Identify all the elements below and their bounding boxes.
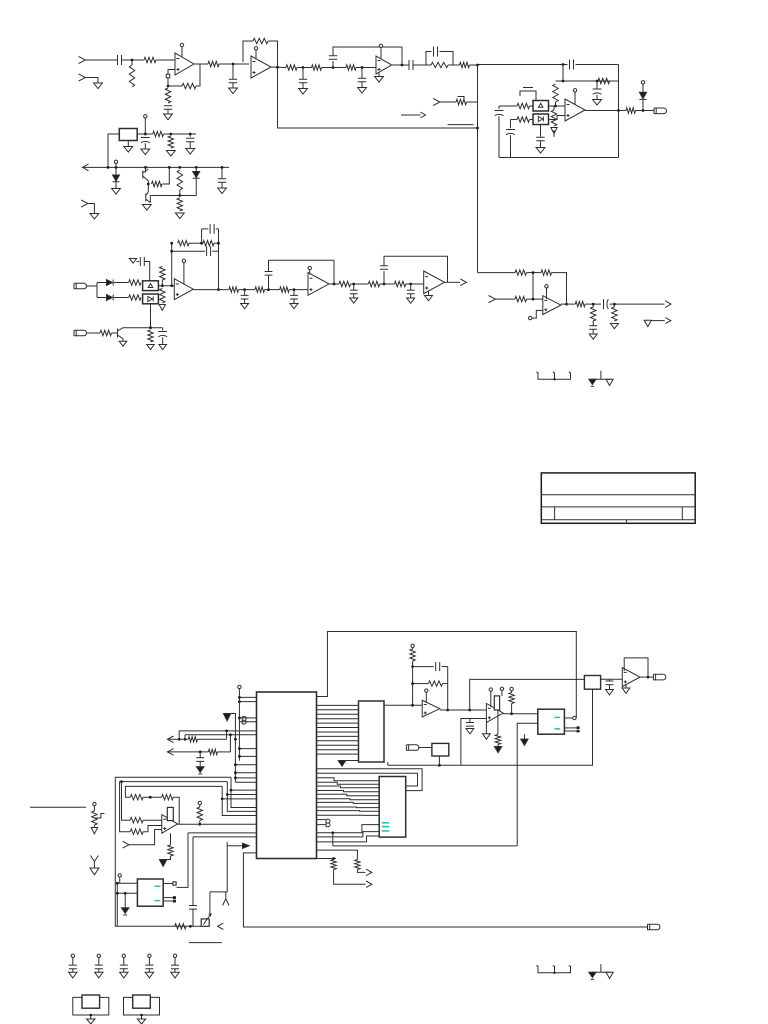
resistor R25 (160, 267, 165, 281)
wire R37 to R38 (527, 272, 542, 274)
junction R29 R30 (200, 242, 203, 245)
resistor R20 (152, 181, 163, 186)
ground G35 filled (196, 767, 204, 773)
wire U7-U8 pin 4 (317, 718, 359, 720)
cyan mark U17 a (155, 885, 161, 887)
wire C26 stub (383, 271, 385, 284)
wire cap row gnd 3 (123, 969, 125, 973)
ground G18 small (129, 259, 136, 264)
net label underline (448, 124, 474, 126)
op-amp U12 (622, 668, 640, 687)
wire U1A output (194, 63, 200, 65)
wire C1 to R1 (122, 59, 145, 61)
wire c2 corner (184, 735, 186, 740)
ground G30 (606, 379, 613, 385)
wire maze L3 (125, 786, 222, 797)
junction rail D2 (115, 166, 118, 169)
optocoupler A2 box (533, 114, 549, 125)
wire RC loop left (426, 52, 432, 66)
wire D1 stub low (642, 100, 644, 111)
capacitor C14 (536, 137, 544, 141)
ground G19 Q3 (119, 341, 127, 346)
wire pin 850 (317, 850, 358, 859)
pin stub U1A power (181, 47, 183, 58)
junction X1 (90, 1014, 93, 1017)
connector J11 (123, 841, 129, 848)
resistor R30 feedback (203, 241, 214, 246)
wire U7-U8 pin 10 (317, 744, 359, 746)
wire A2 bottom (540, 125, 542, 137)
terminal U2 vcc (573, 89, 576, 92)
ground G24 (350, 298, 358, 303)
wire R15 left (499, 105, 517, 107)
wire line 832 (188, 832, 257, 834)
wire pin b3 (239, 717, 256, 719)
wire feedback U1B right (268, 41, 278, 67)
title block div right (681, 507, 683, 520)
pin stub U2 (574, 92, 576, 105)
terminal cap row 2 (97, 954, 100, 957)
resistor R46 (509, 693, 514, 704)
capacitor C31 (466, 723, 474, 727)
pin stub U1C (380, 48, 382, 60)
node bias tap square (166, 74, 170, 78)
wire pin b5 (239, 748, 256, 750)
crystal X1 body (82, 995, 100, 1008)
wire U12 gnd stub (625, 685, 627, 688)
wire R49 right (198, 738, 227, 740)
wire cap row stub 1 (72, 958, 74, 966)
resistor R7 (286, 65, 297, 70)
ground G16 (218, 188, 227, 194)
wire R17 to D1 (636, 110, 655, 112)
junction A8 cap (199, 751, 202, 754)
rail main 9V (83, 166, 230, 168)
wire C18 to A3 (144, 262, 149, 281)
resistor R8 (312, 65, 322, 70)
wire C15 gnd (144, 143, 146, 149)
arrow bias down (553, 130, 555, 137)
ground G26 (425, 296, 433, 301)
junction maze 799 (221, 798, 224, 801)
wire N2 cap stub (232, 64, 234, 79)
wire N9 stub (244, 290, 246, 296)
junction N15 (532, 271, 535, 274)
ground G28 (610, 324, 618, 329)
wire R52 to R53 (143, 796, 162, 798)
ground G1 (94, 83, 103, 89)
diode D2 zener (113, 175, 120, 181)
optocoupler A1 box (533, 101, 549, 112)
wire N15 down (532, 273, 534, 300)
pin tick U17 a (173, 882, 176, 885)
wire R20 to rail (162, 167, 169, 184)
wire gnd pair 2 bar (592, 971, 611, 973)
wire RC res right (448, 64, 453, 66)
wire C33 down (199, 761, 201, 766)
wire power arrow link (227, 714, 235, 783)
junction maze L4 (120, 780, 123, 783)
wire vert 193 (192, 837, 194, 906)
op-amp U6 (543, 296, 561, 315)
wire X2 gnd stub (141, 1015, 143, 1019)
cyan mark U11 a (554, 716, 560, 718)
wire C25 gnd (353, 294, 355, 298)
wire U2 out (585, 110, 626, 112)
junction C10 (596, 80, 599, 83)
wire link to R37 (478, 272, 516, 274)
wire line B (317, 858, 337, 860)
capacitor C13 top (520, 88, 536, 101)
wire U1C out (392, 64, 409, 66)
node N8 junction (562, 63, 565, 66)
wire A7 line (167, 738, 188, 740)
rail bottom left (115, 925, 201, 927)
connector J1 input A (79, 56, 86, 63)
ground G39 (120, 972, 128, 978)
wire R33 to U4 (289, 289, 308, 291)
wire R47 to arrow (334, 870, 366, 885)
terminal U11 pin (573, 716, 576, 719)
wire C3 gnd stub (232, 83, 234, 88)
wire R43 down (412, 661, 414, 667)
junction maze low (331, 831, 334, 834)
wire C24 gnd (293, 299, 295, 304)
resistor R9 (346, 65, 356, 70)
wire fb U9 left (412, 667, 414, 706)
wire RV1 to node A leg (467, 101, 478, 103)
resistor R2 shunt (129, 65, 134, 87)
junction R52 (149, 796, 152, 799)
wire wrap w1 (317, 769, 423, 791)
ground G42 filled (589, 972, 596, 977)
wire J3 to RV1 (440, 101, 456, 103)
capacitor C4 (299, 79, 307, 83)
resistor R11 (460, 62, 470, 67)
wire X1 gnd stub (90, 1015, 92, 1019)
wire fork Y (223, 892, 229, 906)
wire maze pin 3 (317, 786, 380, 788)
wire R56 down (199, 821, 201, 825)
wire R55 to arrow (163, 856, 170, 860)
wire U15 low pin 2 (317, 832, 380, 837)
wire C31 stub (469, 719, 471, 723)
junction P1 (234, 738, 237, 741)
wire R38 to corner (552, 273, 567, 305)
wire R54 to U16 (143, 819, 162, 821)
wire R45 stub (497, 710, 499, 735)
junction c2 (184, 738, 187, 741)
terminal cap row 1 (71, 954, 74, 957)
wire R31 to R32 (239, 289, 256, 291)
resistor R39 (515, 296, 527, 301)
terminal U1C vcc (379, 44, 382, 47)
wire J2 to ground (86, 78, 99, 84)
wire D4 to R23 (114, 282, 129, 284)
transistor Q3 (118, 328, 124, 341)
node N6 junction (361, 66, 364, 69)
resistor R44 feedback (428, 681, 442, 686)
title block tick (626, 520, 628, 524)
ground G25 (407, 298, 415, 303)
capacitor C1 (118, 55, 122, 65)
wire R55 stub (170, 833, 172, 845)
resistor R31 (229, 287, 239, 292)
ground G6 (375, 77, 384, 83)
wire R9 to U1C (356, 67, 376, 69)
pin stub U10 (490, 691, 492, 707)
wire bus vertical (238, 689, 240, 761)
junction JP2 (553, 972, 555, 974)
junction bus b5 (238, 747, 241, 750)
wire outer loop top2 (216, 228, 219, 230)
ground G20 (147, 345, 155, 350)
wire maze L4 (122, 782, 131, 821)
net arrow A1 (420, 112, 425, 118)
wire maze pin 799 (222, 798, 256, 800)
junction rail C34 (189, 925, 192, 928)
wire U9 out (440, 709, 487, 711)
ground G4 (299, 89, 308, 95)
wire R32 to R33 (265, 289, 280, 291)
pin stub U4 (309, 270, 311, 275)
wire R50 up (229, 735, 231, 752)
wire U15 low pin 3 (317, 836, 380, 842)
junction bus2 b (234, 771, 237, 774)
pin stub U1B (255, 50, 257, 60)
resistor R3 feedback (182, 83, 196, 88)
wire RC to R11 (453, 64, 460, 66)
wire cap row gnd 4 (148, 969, 150, 973)
wire U17 pin r3 (163, 900, 173, 902)
junction U17 gnd tap (124, 892, 127, 895)
pin stub U10b (501, 691, 503, 697)
ground G29 tail (591, 385, 595, 387)
net arrow A4 (665, 318, 671, 324)
wire N6 cap stub (361, 68, 363, 79)
transistor Q1 (143, 167, 149, 184)
ground G35 tail (198, 773, 202, 775)
connector J4 output A (654, 108, 667, 114)
wire U7 gnd loop (243, 853, 647, 927)
junction fb right (217, 242, 220, 245)
ground G5 (358, 88, 367, 94)
ground G32 (483, 734, 491, 740)
wire C32 stub (609, 679, 611, 681)
wire N12 stub (353, 284, 355, 290)
wire U17 pin r2 (163, 897, 173, 899)
wire U15 low pin 1 (317, 825, 380, 833)
wire node A down (477, 65, 479, 273)
wire U8 to U9 (384, 704, 422, 706)
wire to D5 (97, 297, 107, 299)
op-amp U5 (424, 271, 445, 294)
IC U13 box4 (584, 676, 600, 690)
wire C14 gnd (540, 141, 542, 148)
wire maze pin 5 (317, 794, 380, 796)
resistor R18 (153, 131, 164, 136)
capacitor C30 (436, 662, 440, 671)
wire U17 in1 (117, 882, 137, 884)
wire N4 cap stub (302, 68, 304, 80)
cyan mark U15 c (382, 830, 389, 832)
wire U10 out (503, 713, 538, 715)
wire pin b6 (239, 755, 256, 757)
resistor R43 (410, 649, 415, 661)
capacitor C25 (350, 290, 358, 294)
terminal cap row 3 (122, 954, 125, 957)
IC U14 box5 (432, 743, 449, 756)
wire cap row stub 2 (98, 958, 100, 966)
wire pin b2 (239, 701, 256, 703)
junction N12 (352, 283, 355, 286)
junction bus b6 (238, 755, 241, 758)
wire N14 stub (410, 284, 412, 290)
wire J6 vert (96, 283, 98, 298)
resistor R49 (188, 737, 197, 742)
wire R16 to A2 (530, 119, 534, 121)
resistor R48 (355, 860, 360, 870)
IC U7 main (257, 692, 317, 859)
wire gnd pair 2 stub (600, 964, 602, 972)
resistor R33 (280, 287, 290, 292)
junction VR1 out (144, 133, 147, 136)
resistor R57 inline (175, 924, 186, 929)
wire c1 corner (178, 731, 180, 739)
wire D1 stub high (642, 84, 644, 92)
connector J12 (648, 924, 661, 930)
connector J5 input B (81, 200, 88, 207)
wire U7-U8 pin 8 (317, 735, 359, 737)
ground G9 (124, 147, 133, 153)
title block line 1 (541, 494, 695, 496)
bus label B2 (326, 819, 330, 826)
ground G43 (606, 972, 613, 978)
wire U3 out (193, 289, 229, 291)
wire C30 right (442, 666, 448, 668)
junction rail Q1 (144, 166, 147, 169)
wire J6 split (87, 285, 98, 287)
capacitor C16 (186, 138, 194, 142)
wire J1 to C1 (86, 59, 118, 61)
capacitor C18 (140, 257, 144, 266)
junction maze 790 (230, 789, 233, 792)
capacitor C36 (95, 965, 103, 969)
junction bus2 a (234, 763, 237, 766)
junction fb U9 a (411, 665, 414, 668)
wire fb U4 top (269, 259, 335, 261)
wire gnd pair stub (600, 371, 602, 380)
wire outer loop left (201, 229, 203, 243)
capacitor C32 (606, 681, 614, 685)
wire C9 to corner (576, 64, 619, 66)
wire R30 right (214, 242, 219, 244)
wire net stub (651, 320, 664, 322)
IC U8 (359, 701, 385, 762)
junction rail C17 (221, 166, 224, 169)
terminal U10 vcc (489, 688, 492, 691)
op-amp U9 (422, 700, 440, 717)
wire VR1 out (137, 133, 153, 135)
capacitor C5 feedback (329, 56, 337, 60)
wire RV3 down (93, 825, 95, 828)
wire C28 to arrow (610, 303, 665, 305)
transistor Q2 (146, 184, 151, 203)
wire R18 right (164, 133, 197, 135)
wire R53 loop (173, 797, 179, 824)
wire maze pin 6 (317, 799, 380, 800)
bus label B (242, 717, 246, 724)
wire G18 to C18 (137, 261, 139, 263)
terminal RV3 top (93, 803, 96, 806)
wire fb U4 vert (333, 260, 335, 284)
ground G37 (69, 972, 77, 978)
cyan mark U17 b (155, 900, 161, 902)
junction N14 (409, 283, 412, 286)
junction R46 (510, 712, 513, 715)
ground G12 (186, 149, 195, 155)
junction fb line (562, 80, 565, 83)
wire U1A out chain (200, 63, 208, 65)
resistor R24 (129, 295, 141, 300)
junction rail VR1 (107, 166, 110, 169)
wire C4 gnd (302, 83, 304, 89)
wire R34 to R35 (351, 283, 369, 285)
ground G44 fork (90, 856, 99, 875)
wire vcc stub (144, 118, 146, 134)
wire D5 to R24 (114, 297, 129, 299)
wire C30 left (413, 666, 434, 668)
resistor R14 comp (551, 110, 556, 126)
pin tick U11 a (577, 726, 580, 729)
wire C17 gnd (221, 182, 223, 188)
wire U7-U8 pin 3 (317, 713, 359, 715)
wire cap row stub 3 (123, 958, 125, 966)
wire top loop left (317, 632, 577, 719)
resistor R32 (255, 287, 265, 292)
wire R1 to U1A (156, 59, 175, 61)
terminal cap row 4 (148, 954, 151, 957)
ground G14 Q2 (142, 205, 151, 211)
wire U5 gnd stub (428, 292, 430, 296)
ground G31 (466, 729, 474, 734)
terminal cap row 5 (173, 954, 176, 957)
IC U15 dsp (379, 777, 406, 838)
wire U7-U8 pin 2 (317, 709, 359, 711)
resistor R19 (168, 136, 173, 148)
ground G42 tail (591, 978, 595, 980)
junction fb U3 top (170, 242, 173, 245)
node N7 junction (401, 64, 404, 67)
wire U11 left lower pin (517, 723, 538, 846)
junction fb U3 mid (170, 250, 173, 253)
terminal U9 vcc (425, 689, 428, 692)
junction N11 (293, 288, 296, 291)
terminal U10b (500, 687, 503, 690)
wire wrap w2 (317, 773, 418, 786)
wire R36 to U5 (406, 283, 424, 285)
net arrow A2 (460, 279, 466, 286)
connector J2 input (79, 74, 86, 81)
optocoupler A4 box (143, 294, 159, 304)
ground X1 (87, 1019, 95, 1024)
wire cap row gnd 1 (72, 969, 74, 973)
resistor R35 (368, 281, 379, 286)
wire C27 gnd (410, 294, 412, 298)
ground G36 filled (121, 908, 129, 914)
optocoupler A2 mark (538, 117, 543, 122)
open arrow down R26 (159, 305, 165, 311)
